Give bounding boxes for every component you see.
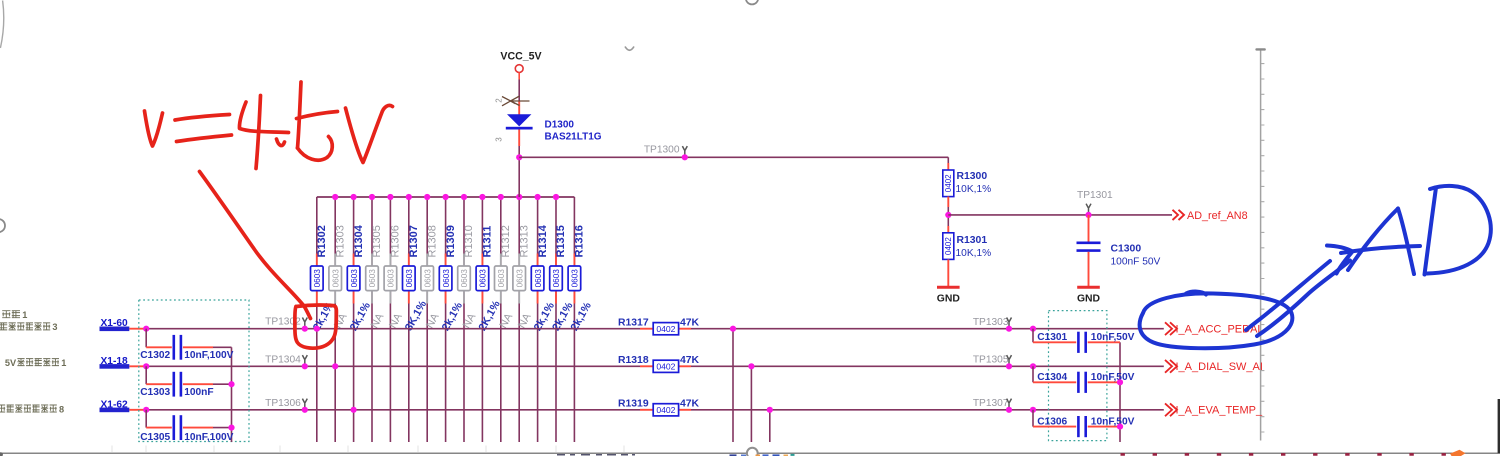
label resistive analog signal 8: [0, 404, 64, 414]
wire column R1303: [334, 197, 336, 442]
junction TP1305: [1006, 363, 1012, 369]
svg-text:R1312: R1312: [500, 225, 512, 257]
svg-text:TP1305: TP1305: [973, 355, 1009, 366]
testpoint TP1305: [973, 355, 1012, 366]
junction stub: [767, 407, 773, 413]
wire node to R1301: [947, 226, 949, 233]
svg-text:2: 2: [495, 98, 504, 103]
svg-text:0402: 0402: [944, 237, 953, 255]
svg-text:R1310: R1310: [463, 225, 475, 257]
resistor R1310: [458, 225, 479, 330]
svg-text:0402: 0402: [656, 362, 675, 372]
svg-text:10K,1%: 10K,1%: [956, 248, 992, 259]
net label I_A_DIAL_SW_AI: [1165, 360, 1263, 373]
resistor R1304: [347, 224, 373, 333]
svg-text:0603: 0603: [313, 269, 322, 288]
annotation blue ellipse: [1140, 292, 1293, 349]
svg-text:0603: 0603: [552, 269, 561, 288]
junction C1306 rail: [1117, 424, 1123, 430]
svg-text:TP1303: TP1303: [973, 317, 1009, 328]
svg-text:0402: 0402: [944, 174, 953, 192]
svg-text:R1307: R1307: [408, 225, 420, 257]
resistor R1301: [943, 233, 991, 260]
power port VCC_5V: [500, 51, 541, 73]
ruler line: [1255, 48, 1265, 440]
svg-text:10nF,50V: 10nF,50V: [1091, 416, 1135, 427]
wire diode to junction: [518, 130, 520, 147]
resistor R1309: [439, 225, 465, 333]
svg-text:0402: 0402: [656, 405, 675, 415]
svg-text:C1304: C1304: [1037, 372, 1067, 383]
junction on top rail: [424, 194, 430, 200]
wire AD_ref net: [948, 214, 1172, 216]
wire column R1302: [316, 197, 318, 442]
svg-text:0603: 0603: [350, 269, 359, 288]
svg-text:1: 1: [22, 310, 27, 320]
junction C1303 rail: [228, 381, 234, 387]
svg-text:C1301: C1301: [1037, 332, 1067, 343]
junction TP1300: [682, 154, 688, 160]
svg-text:100nF 50V: 100nF 50V: [1111, 257, 1161, 268]
svg-text:R1305: R1305: [371, 225, 383, 257]
wire down to R1300: [947, 157, 949, 163]
resistor R1317 47K: [618, 318, 700, 335]
svg-text:R1306: R1306: [390, 225, 402, 257]
svg-text:0603: 0603: [479, 269, 488, 288]
svg-text:R1318: R1318: [618, 355, 649, 366]
junction on top rail: [369, 194, 375, 200]
junction on top rail: [479, 194, 485, 200]
wire junction down to rail: [518, 157, 520, 197]
svg-text:47K: 47K: [680, 318, 700, 329]
svg-text:10K,1%: 10K,1%: [956, 184, 992, 195]
wire column R1307: [408, 197, 410, 442]
svg-text:R1319: R1319: [618, 399, 649, 410]
svg-text:8: 8: [59, 404, 64, 414]
wire to R1300: [519, 156, 948, 158]
svg-text:C1303: C1303: [140, 387, 170, 398]
testpoint TP1304: [265, 354, 307, 365]
wire top rail of resistor array: [317, 196, 575, 198]
svg-text:0603: 0603: [405, 269, 414, 288]
wire row X1-62: [129, 409, 146, 411]
svg-text:C1302: C1302: [140, 350, 170, 361]
wire column R1313: [518, 197, 520, 442]
wire column R1306: [389, 197, 391, 442]
resistor R1305: [366, 225, 387, 330]
svg-text:0603: 0603: [423, 269, 432, 288]
capacitor C1306 10nF,50V: [1033, 410, 1135, 437]
resistor R1313: [513, 225, 534, 330]
capacitor C1304 10nF,50V: [1033, 366, 1135, 393]
label analog signal 3: [0, 322, 58, 332]
junction on top rail: [553, 194, 559, 200]
resistor R1300: [943, 170, 991, 197]
resistor R1303: [329, 225, 350, 330]
junction C1305 rail: [228, 425, 234, 431]
label jiasu1: [2, 310, 27, 320]
wire VCC to diode: [518, 73, 520, 80]
label 5V sensor signal 1: [5, 358, 66, 368]
resistor R1302: [311, 225, 337, 333]
junction C1305 stub: [143, 407, 149, 413]
junction on top rail: [387, 194, 393, 200]
svg-text:R1317: R1317: [618, 318, 649, 329]
annotation blue letter D: [1425, 186, 1491, 275]
junction on top rail: [516, 194, 522, 200]
corner arc artifact top-left: [0, 1, 3, 49]
junction cap stub: [1030, 363, 1036, 369]
svg-text:1: 1: [61, 358, 66, 368]
svg-text:I_A_DIAL_SW_AI: I_A_DIAL_SW_AI: [1176, 361, 1263, 373]
svg-text:3: 3: [495, 137, 504, 142]
clipped text fragments bottom-center: [557, 454, 635, 456]
resistor R1316: [568, 225, 594, 333]
resistor R1318 47K: [618, 355, 700, 372]
junction on top rail: [498, 194, 504, 200]
capacitor C1301 10nF,50V: [1033, 329, 1135, 353]
dotted selection box left: [139, 300, 249, 442]
svg-text:R1303: R1303: [334, 225, 346, 257]
small arc artifact: [625, 47, 634, 51]
svg-text:TP1301: TP1301: [1077, 190, 1113, 201]
wire R1301 to GND: [947, 259, 949, 286]
resistor R1319 47K: [618, 399, 700, 416]
svg-text:0603: 0603: [387, 269, 396, 288]
resistor R1311: [476, 226, 503, 333]
bottom handle circle: [747, 448, 758, 456]
svg-text:3: 3: [52, 322, 57, 332]
junction stub: [730, 326, 736, 332]
junction on top rail: [443, 194, 449, 200]
wire column R1304: [353, 197, 355, 442]
junction column 335.2: [332, 363, 338, 369]
junction TP1307: [1006, 407, 1012, 413]
partial circle handle left-edge: [0, 219, 5, 232]
right edge black bar: [1498, 399, 1500, 453]
svg-text:10nF,50V: 10nF,50V: [1091, 332, 1135, 343]
svg-text:5V: 5V: [5, 358, 17, 368]
wire column R1312: [500, 197, 502, 442]
svg-text:TP1304: TP1304: [265, 354, 301, 365]
svg-text:C1300: C1300: [1111, 244, 1142, 255]
port X1-62: [100, 399, 130, 412]
capacitor C1300: [1077, 215, 1161, 286]
junction C1304 rail: [1117, 379, 1123, 385]
resistor R1306: [384, 225, 405, 330]
svg-text:R1301: R1301: [957, 235, 988, 246]
svg-text:GND: GND: [1077, 293, 1101, 304]
svg-text:R1316: R1316: [574, 225, 586, 257]
junction C1302 stub: [143, 326, 149, 332]
svg-text:R1313: R1313: [518, 225, 530, 257]
annotation red V=4.5V: [145, 82, 393, 169]
junction on top rail: [535, 194, 541, 200]
junction cap stub: [1030, 326, 1036, 332]
net label I_A_ACC_PEDAL: [1165, 322, 1264, 335]
svg-text:R1315: R1315: [555, 225, 567, 257]
svg-text:BAS21LT1G: BAS21LT1G: [545, 132, 602, 143]
svg-text:0603: 0603: [368, 269, 377, 288]
junction TP1304: [302, 363, 308, 369]
wire row X1-18: [129, 365, 146, 367]
svg-text:0603: 0603: [534, 269, 543, 288]
capacitor C1302 10nF,100V: [140, 329, 233, 361]
junction on top rail: [332, 194, 338, 200]
resistor R1315: [550, 225, 576, 333]
diode D1300: [506, 114, 602, 142]
port X1-60: [100, 318, 130, 331]
junction on top rail: [461, 194, 467, 200]
svg-text:R1308: R1308: [426, 225, 438, 257]
svg-text:I_A_EVA_TEMP_: I_A_EVA_TEMP_: [1176, 405, 1263, 417]
annotation red loop: [295, 305, 337, 348]
svg-text:10nF,100V: 10nF,100V: [184, 432, 233, 443]
svg-text:TP1306: TP1306: [265, 398, 301, 409]
wire column R1315: [555, 197, 557, 442]
annotation red arrow stroke: [200, 172, 311, 319]
svg-text:R1304: R1304: [353, 224, 365, 257]
junction TP1306: [302, 407, 308, 413]
testpoint TP1306: [265, 398, 307, 409]
annotation blue arrow: [1246, 246, 1353, 337]
wire R1300 to node: [947, 197, 949, 208]
junction on top rail: [351, 194, 357, 200]
svg-text:C1306: C1306: [1037, 416, 1067, 427]
svg-text:C1305: C1305: [140, 432, 170, 443]
resistor R1307: [403, 225, 430, 333]
wire stub down: [750, 366, 752, 442]
bottom-left corner mark: [0, 452, 3, 456]
wire column R1309: [445, 197, 447, 442]
svg-text:R1300: R1300: [957, 171, 988, 182]
wire column R1308: [426, 197, 428, 442]
svg-text:AD_ref_AN8: AD_ref_AN8: [1187, 210, 1248, 222]
svg-text:D1300: D1300: [545, 120, 575, 131]
junction column 316.8: [314, 326, 320, 332]
svg-text:0603: 0603: [515, 269, 524, 288]
svg-text:R1314: R1314: [537, 224, 549, 257]
wire column R1316: [573, 197, 575, 442]
svg-text:0603: 0603: [460, 269, 469, 288]
svg-text:R1311: R1311: [482, 226, 494, 258]
svg-text:R1302: R1302: [316, 225, 328, 257]
port X1-18: [100, 356, 130, 369]
resistor R1308: [421, 225, 442, 330]
wire stub down: [732, 329, 734, 442]
wire row X1-60: [129, 328, 146, 330]
wire column R1311: [481, 197, 483, 442]
testpoint TP1301: [1077, 190, 1113, 213]
svg-text:47K: 47K: [680, 355, 700, 366]
junction on top rail: [406, 194, 412, 200]
svg-text:10nF,100V: 10nF,100V: [184, 350, 233, 361]
svg-text:100nF: 100nF: [184, 387, 213, 398]
bottom separator line: [0, 452, 1500, 454]
testpoint TP1300: [644, 145, 687, 156]
svg-text:R1309: R1309: [445, 225, 457, 257]
wire column R1310: [463, 197, 465, 442]
partial circle handle top-center: [746, 0, 758, 4]
junction C1303 stub: [143, 363, 149, 369]
resistor R1312: [495, 225, 516, 330]
svg-text:47K: 47K: [680, 399, 700, 410]
junction cap stub: [1030, 407, 1036, 413]
junction stub: [748, 363, 754, 369]
faint cell separators above bottom line: [112, 446, 624, 453]
no-ERC cross marker: [502, 96, 530, 106]
junction column 353.6: [351, 407, 357, 413]
svg-text:0603: 0603: [497, 269, 506, 288]
clipped row below: maroon dashes: [1121, 453, 1446, 456]
wire cap bank gnd rail left: [231, 347, 233, 442]
ground under C1300: [1077, 287, 1101, 304]
svg-text:VCC_5V: VCC_5V: [500, 51, 541, 63]
node junction diode: [516, 154, 522, 160]
capacitor C1305 10nF,100V: [140, 410, 233, 443]
wire cap bank gnd rail right: [1119, 342, 1121, 442]
junction TP1303: [1006, 326, 1012, 332]
svg-text:0603: 0603: [442, 269, 451, 288]
net label I_A_EVA_TEMP_: [1165, 403, 1263, 416]
net label AD_ref_AN8: [1173, 210, 1248, 222]
svg-text:0603: 0603: [331, 269, 340, 288]
junction TP1301: [1085, 212, 1091, 218]
svg-text:TP1307: TP1307: [973, 398, 1009, 409]
testpoint TP1307: [973, 398, 1012, 409]
junction TP1302: [302, 326, 308, 332]
node AD ref: [945, 212, 951, 218]
orange cursor mark: [1450, 450, 1466, 456]
dotted selection box right: [1049, 311, 1107, 441]
testpoint TP1302: [265, 317, 307, 328]
svg-text:0603: 0603: [571, 269, 580, 288]
ground under R1301: [937, 287, 961, 304]
wire column R1305: [371, 197, 373, 442]
wire stub down: [769, 410, 771, 442]
annotation blue letter A: [1341, 209, 1420, 275]
svg-text:GND: GND: [937, 293, 961, 304]
testpoint TP1303: [973, 317, 1012, 328]
svg-text:0402: 0402: [656, 324, 675, 334]
capacitor C1303 100nF: [140, 366, 231, 398]
svg-text:10nF,50V: 10nF,50V: [1091, 372, 1135, 383]
wire column R1314: [537, 197, 539, 442]
svg-text:TP1300: TP1300: [644, 145, 680, 156]
resistor R1314: [531, 224, 557, 333]
